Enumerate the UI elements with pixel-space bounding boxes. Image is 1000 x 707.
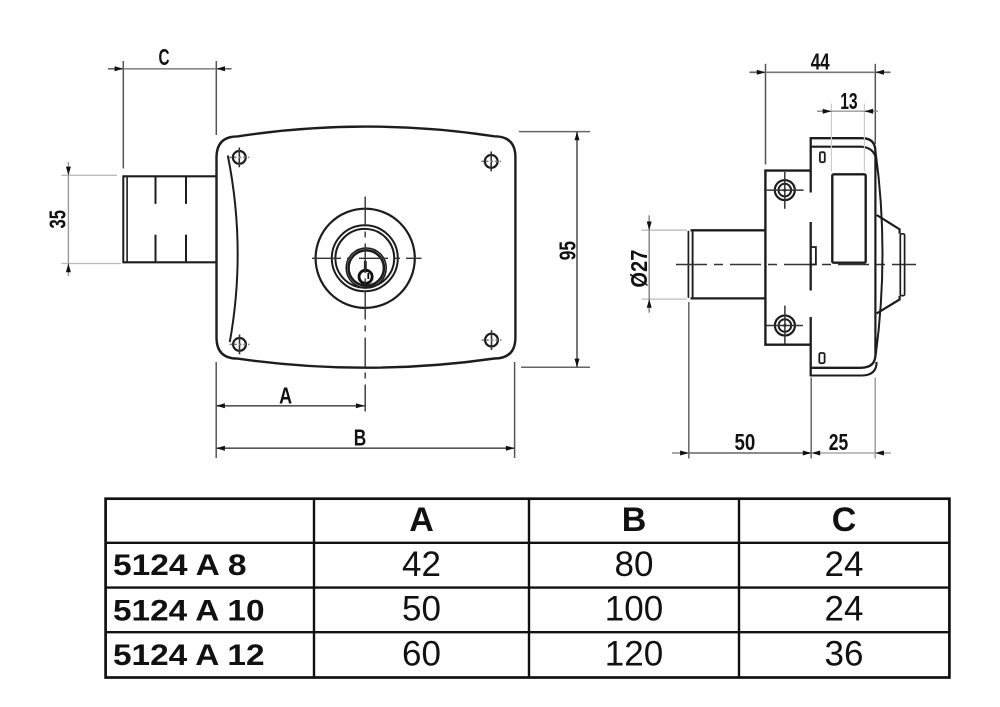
keyhole notch <box>367 273 369 279</box>
svg-text:42: 42 <box>402 545 441 584</box>
svg-text:24: 24 <box>825 590 864 629</box>
bolt groove line 2 <box>185 176 187 204</box>
dimension 13 arrow right <box>864 109 873 114</box>
svg-text:95: 95 <box>554 241 580 260</box>
dimension 50 arrow left <box>680 451 689 456</box>
dimension 95 extension top <box>519 131 590 133</box>
svg-text:C: C <box>159 44 170 70</box>
screw hole top-left <box>229 148 249 168</box>
dimension 13 line <box>831 110 864 112</box>
table row line 3 <box>106 631 950 633</box>
dimension 35 arrow bottom <box>66 264 71 273</box>
svg-text:5124 A 8: 5124 A 8 <box>113 549 247 582</box>
dimension diameter27 extension top <box>642 229 688 231</box>
dimension 35 line <box>67 162 69 276</box>
dimension C arrow left <box>115 66 124 71</box>
dimension A B extension left <box>215 362 217 458</box>
dimension 35 arrow top <box>66 167 71 176</box>
screw hole bottom-right <box>482 330 502 350</box>
cylinder bar top edge <box>691 229 766 231</box>
dimension 50 arrow right <box>803 451 812 456</box>
svg-text:5124 A 12: 5124 A 12 <box>113 639 265 672</box>
bolt tip cap <box>900 234 904 296</box>
bolt groove line 1 <box>155 176 157 204</box>
case left edge tab <box>811 247 816 265</box>
svg-text:B: B <box>622 501 647 539</box>
dimension B arrow right <box>506 446 515 451</box>
bottom tab <box>819 353 824 363</box>
keyhole stem <box>364 262 367 272</box>
svg-text:24: 24 <box>825 545 864 584</box>
svg-text:36: 36 <box>825 635 864 674</box>
svg-text:25: 25 <box>829 429 849 455</box>
dimension 44 arrow left <box>757 70 766 75</box>
svg-text:120: 120 <box>605 635 663 674</box>
table row line 1 <box>106 542 950 544</box>
case bottom lip <box>811 362 877 376</box>
dimension C arrow right <box>216 66 225 71</box>
screw hole top-right <box>481 152 501 172</box>
case bottom edge outer <box>811 355 876 368</box>
svg-text:Ø27: Ø27 <box>626 250 652 288</box>
dimension 44 line <box>766 71 876 73</box>
case top edge inner <box>811 147 877 160</box>
svg-text:A: A <box>409 501 434 539</box>
faceplate arc <box>228 156 238 343</box>
mounting plate <box>765 171 810 345</box>
dimension 50 extension middle <box>810 378 812 459</box>
dimension 35 extension bottom <box>62 263 122 265</box>
table outer border <box>106 499 950 678</box>
dimension diameter27 line <box>648 215 650 312</box>
dimension 35 extension top <box>62 174 118 176</box>
svg-text:B: B <box>354 425 367 451</box>
dimension 50 extension left <box>688 302 690 459</box>
lock body <box>217 127 516 368</box>
key cylinder outer <box>346 248 386 288</box>
table row line 2 <box>106 586 950 588</box>
bolt bottom edge <box>123 261 217 263</box>
case top edge outer <box>811 138 876 151</box>
svg-text:50: 50 <box>402 590 441 629</box>
dimension B arrow left <box>216 446 225 451</box>
dimension 13 extension right <box>863 104 865 172</box>
dimension 44 extension left <box>765 64 767 165</box>
cylinder horizontal centerline <box>309 257 422 259</box>
dimension 25 line <box>812 452 876 454</box>
side bolt rectangle <box>832 174 865 262</box>
dimension C extension right <box>215 61 217 135</box>
dimension C extension left <box>122 61 124 169</box>
table column line 2 <box>528 499 530 678</box>
svg-text:100: 100 <box>605 590 663 629</box>
dimension diameter27 extension bottom <box>642 298 688 300</box>
cylinder bar bottom edge <box>691 297 766 299</box>
case left edge segment 2 <box>810 222 812 291</box>
bolt tip trapezoid <box>877 215 900 313</box>
dimension B extension right <box>514 362 516 458</box>
dimension 13 extension left <box>830 104 832 172</box>
boss bottom circle <box>766 306 803 344</box>
cylinder bar left face <box>687 232 689 298</box>
key cylinder inner <box>349 250 384 285</box>
dimension 25 arrow left <box>812 451 821 456</box>
dimension 25 extension right <box>874 378 876 459</box>
dimension 44 arrow right <box>875 70 884 75</box>
dimension diameter27 arrow top <box>647 222 652 231</box>
svg-text:5124 A 10: 5124 A 10 <box>113 594 265 627</box>
table column line 1 <box>313 499 315 678</box>
svg-text:13: 13 <box>840 88 857 114</box>
dimension 95 arrow bottom <box>575 359 580 368</box>
case right bulge arc <box>876 152 883 356</box>
svg-text:50: 50 <box>735 429 756 455</box>
svg-text:A: A <box>279 383 292 409</box>
dimension A arrow right <box>356 403 365 408</box>
dimension A arrow left <box>216 403 225 408</box>
dimension 25 arrow right <box>875 451 884 456</box>
case left edge segment 3 <box>810 317 812 377</box>
dimension diameter27 arrow bottom <box>647 299 652 308</box>
dimension B line <box>216 447 514 449</box>
top tab <box>820 152 825 162</box>
dimension 44 extension right <box>874 64 876 144</box>
svg-text:35: 35 <box>45 210 71 229</box>
case left edge segment 1 <box>810 137 812 193</box>
bolt left face <box>122 175 124 263</box>
bolt top edge <box>123 175 217 177</box>
table column line 3 <box>738 499 740 678</box>
cylinder vertical centerline <box>364 197 366 412</box>
cylinder ring outer <box>332 225 398 291</box>
dimension 95 line <box>576 132 578 368</box>
cylinder ring inner <box>335 229 394 288</box>
cylinder escutcheon outer circle <box>316 209 415 308</box>
dimension A line <box>216 405 364 407</box>
dimension 95 arrow top <box>575 132 580 141</box>
keyhole bulb <box>359 270 372 283</box>
screw hole bottom-left <box>230 335 250 355</box>
dimension 13 arrow left <box>823 109 832 114</box>
dimension C line <box>123 68 216 70</box>
svg-text:60: 60 <box>402 635 441 674</box>
svg-text:C: C <box>832 501 857 539</box>
svg-text:44: 44 <box>811 48 830 74</box>
bar centerline <box>676 264 916 266</box>
boss top circle outer <box>767 172 804 209</box>
svg-text:80: 80 <box>615 545 654 584</box>
dimension 50 line <box>689 452 812 454</box>
case right edge <box>874 152 876 355</box>
dimension 95 extension bottom <box>521 366 590 368</box>
